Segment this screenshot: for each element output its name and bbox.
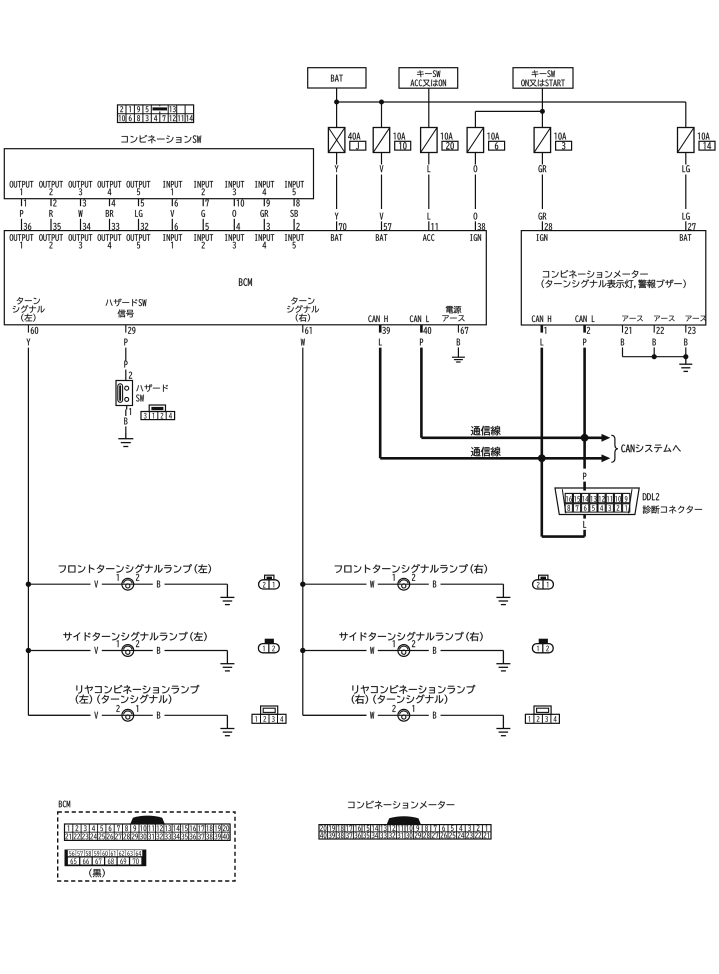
node IGN bus junction	[540, 109, 545, 114]
BCM pin 60 turn signal left	[27, 325, 29, 333]
label rear combination lamp left line2	[76, 695, 171, 704]
wire G SW pin 7 to BCM pin 5	[202, 199, 204, 207]
label to CAN system	[621, 444, 680, 452]
wire V SW pin 6 to BCM pin 6	[171, 199, 173, 207]
connector side turn lamp left 2P	[258, 644, 279, 653]
node meter ground junction 23	[683, 354, 688, 359]
switch SW1 combination switch box	[4, 149, 313, 199]
connector BCM 15P black	[65, 850, 147, 867]
wire O SW pin 10 to BCM pin 4	[233, 199, 235, 207]
power source key SW ACC	[399, 68, 458, 89]
label combination SW	[121, 135, 201, 143]
connector rear comb lamp right 4P	[525, 714, 559, 723]
node Y junction front left	[26, 582, 31, 587]
ground front turn lamp left	[226, 584, 228, 597]
node BAT bus junction 1	[334, 100, 339, 105]
wire Y turn signal left feed	[27, 348, 29, 716]
node W junction front right	[300, 582, 305, 587]
fuse 20 10A	[421, 128, 438, 153]
wire W SW pin 3 to BCM pin 34	[80, 199, 82, 207]
arrow CAN H to CAN system	[602, 434, 611, 442]
fuse 14 10A	[678, 128, 695, 153]
brace CAN system	[611, 435, 618, 462]
wire SB SW pin 8 to BCM pin 2	[293, 199, 295, 207]
meter pin 2 CAN L	[583, 325, 586, 333]
wire meter ground bus	[622, 347, 624, 356]
combination meter box (turn signal indicator, warning buzzer)	[521, 231, 706, 325]
node BAT bus junction 2	[379, 100, 384, 105]
ground hazard SW	[125, 433, 127, 439]
wire LG SW pin 5 to BCM pin 32	[138, 199, 140, 207]
wire L fuse to pin 11	[428, 153, 430, 165]
BCM pin 39 CAN H	[379, 325, 382, 333]
power source key SW START	[513, 68, 573, 89]
wire Y fuse to pin 70	[336, 153, 338, 165]
wire GR fuse to pin 28	[541, 153, 543, 165]
wire CAN L meter2 drop	[583, 348, 586, 469]
fuse 10 10A	[373, 128, 390, 153]
connector side turn lamp right 2P	[532, 644, 553, 653]
wire CAN H BCM39 thick	[379, 348, 382, 459]
lamp side turn signal right	[303, 650, 367, 652]
node W junction side right	[300, 648, 305, 653]
node CAN L junction	[581, 434, 589, 442]
BCM pin 29 hazard SW signal	[125, 325, 127, 333]
wire CAN L BCM40 thick	[420, 348, 423, 438]
ground side turn lamp left	[226, 651, 228, 664]
BCM pin 40 CAN L	[420, 325, 423, 333]
BCM pin 67 power ground	[457, 325, 459, 333]
connector hazard SW 4P connector	[141, 412, 175, 420]
switch SW2 hazard switch	[116, 381, 133, 406]
meter pin 21 ground	[622, 325, 624, 333]
wire BR SW pin 4 to BCM pin 33	[109, 199, 111, 207]
wire P BCM29 to hazard SW	[125, 348, 127, 361]
wire O fuse to pin 38	[474, 153, 476, 165]
label rear combination lamp right line2	[352, 695, 447, 704]
label BCM connector	[59, 801, 70, 808]
wire P meter2 to DDL2	[583, 473, 586, 480]
label front turn signal lamp right	[335, 564, 487, 573]
arrow CAN L to CAN system	[602, 454, 611, 462]
label rear combination lamp left line1	[76, 685, 199, 694]
label communication line 1	[471, 426, 501, 436]
node Y junction side left	[26, 648, 31, 653]
label side turn signal lamp right	[339, 632, 482, 641]
wire L DDL2 to CAN H	[583, 515, 586, 519]
connector combination meter 40P	[387, 816, 421, 824]
ground front turn lamp right	[502, 584, 504, 597]
meter pin 23 ground	[685, 325, 687, 333]
wire BAT bus	[337, 101, 686, 103]
wire R SW pin 2 to BCM pin 35	[50, 199, 52, 207]
lamp rear combination right turn signal	[303, 714, 367, 716]
wire GR SW pin 9 to BCM pin 3	[263, 199, 265, 207]
lamp front turn signal right	[303, 583, 367, 585]
wire fuse10 drop	[381, 102, 383, 128]
ground side turn lamp right	[502, 651, 504, 664]
wire BAT box drop	[336, 88, 338, 128]
wire B hazard to ground	[129, 408, 131, 415]
lamp rear combination left turn signal	[28, 714, 90, 716]
wire CAN H meter1 drop	[540, 348, 543, 537]
ground rear comb lamp left	[226, 715, 228, 728]
wire P SW pin 1 to BCM pin 36	[21, 199, 23, 207]
node CAN H junction	[538, 454, 546, 462]
connector rear comb lamp left 4P	[252, 714, 286, 723]
BCM body control module box	[4, 231, 486, 325]
connector combination-SW 14P connector	[118, 105, 194, 123]
wire W turn signal right feed	[302, 348, 304, 716]
label diagnostic connector	[643, 506, 702, 514]
power source BAT	[308, 68, 366, 88]
label black	[89, 869, 104, 878]
label rear combination lamp right line1	[352, 685, 475, 694]
wire ACC drop	[428, 88, 430, 127]
label communication line 2	[471, 447, 501, 457]
label front turn signal lamp left	[59, 564, 211, 573]
wire LG fuse to pin 27	[685, 153, 687, 165]
label side turn signal lamp left	[63, 632, 206, 641]
meter pin 22 ground	[653, 325, 655, 333]
label combination meter connector	[348, 801, 454, 809]
fuse 6 10A	[467, 128, 484, 153]
label DDL2	[643, 493, 659, 500]
connector BCM 40P	[130, 816, 165, 824]
wire START drop	[541, 88, 543, 127]
ground BCM pin 67	[457, 347, 459, 357]
BCM pin 61 turn signal right	[302, 325, 304, 333]
connector front turn lamp right 2P	[533, 580, 554, 589]
BCM connector dashed outline	[58, 812, 235, 881]
lamp side turn signal left	[28, 650, 90, 652]
wire IGN bus	[475, 110, 542, 112]
connector front turn lamp left 2P	[259, 580, 280, 589]
node meter ground junction 22	[652, 354, 657, 359]
connector DDL2 diagnostic connector 16P	[555, 488, 639, 515]
wire V fuse to pin 57	[381, 153, 383, 165]
fuse 3 10A	[534, 128, 551, 153]
meter pin 1 CAN H	[540, 325, 543, 333]
lamp front turn signal left	[28, 583, 90, 585]
ground combination meter	[685, 357, 687, 365]
fusible link J 40A	[328, 128, 345, 153]
ground rear comb lamp right	[502, 715, 504, 728]
